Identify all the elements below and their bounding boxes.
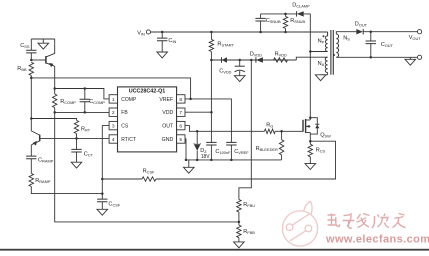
capacitor C_CSF: [101, 194, 103, 200]
terminal V_IN: [146, 30, 150, 34]
node MOSFET source: [309, 140, 312, 143]
wire secondary top to D_OUT: [336, 32, 356, 34]
resistor R_BB: [29, 62, 33, 75]
diode (VDD OR-ing): [222, 57, 227, 62]
resistor R_FBU: [237, 200, 241, 212]
svg-text:NA: NA: [318, 61, 325, 67]
capacitor C_IN: [161, 32, 163, 38]
transistor Q1 (PNP soft-start clamp): [45, 56, 47, 64]
wire ground bus of soft-start clamp (top-left): [31, 38, 54, 40]
wire pin 3 CS to filter node: [102, 126, 109, 194]
terminal output return: [418, 55, 422, 59]
inductor Np primary winding: [325, 32, 327, 52]
wire secondary return: [336, 56, 417, 58]
node base of Q1: [30, 59, 33, 62]
diode D_CLAMP: [297, 11, 304, 16]
wire VDD supply row: [211, 59, 296, 61]
svg-text:RRT: RRT: [81, 126, 91, 132]
pin 7 box: [177, 108, 185, 116]
wire R_RT bottom to RT/CT node: [76, 134, 78, 150]
svg-text:RBLEEDER: RBLEEDER: [256, 146, 278, 152]
node VREF spur to timing resistor: [30, 117, 33, 120]
svg-text:RT/CT: RT/CT: [121, 137, 136, 143]
node C_COMP bottom: [84, 111, 87, 114]
svg-text:2: 2: [112, 110, 115, 116]
node secondary polarity dot: [333, 54, 335, 56]
svg-text:RCS: RCS: [316, 148, 326, 154]
node C_COMP top: [84, 87, 87, 90]
svg-text:RFBU: RFBU: [243, 202, 255, 208]
svg-text:www.elecfans.com: www.elecfans.com: [325, 234, 429, 246]
ground (FB divider): [234, 242, 245, 248]
svg-text:7: 7: [179, 110, 182, 116]
wire R_CSF to current-sense loop: [156, 141, 336, 179]
pin 1 box: [109, 95, 117, 103]
capacitor C_SS: [30, 39, 32, 50]
resistor R_RT: [74, 120, 78, 133]
capacitor C_OUT: [370, 32, 372, 41]
svg-text:CSS: CSS: [20, 43, 30, 49]
svg-text:CVREF: CVREF: [234, 149, 249, 155]
svg-text:CCSF: CCSF: [108, 201, 120, 207]
svg-text:COMP: COMP: [121, 97, 137, 103]
pin 5 box: [177, 135, 185, 143]
capacitor C_CT: [71, 149, 81, 152]
svg-text:8: 8: [179, 97, 182, 103]
svg-text:NP: NP: [318, 39, 325, 45]
pin 3 box: [109, 121, 117, 129]
diode D_VDD: [256, 57, 263, 62]
pin 2 box: [109, 108, 117, 116]
pin 8 box: [177, 95, 185, 103]
svg-text:RG: RG: [266, 123, 273, 129]
ground (R_CS): [305, 164, 316, 170]
node CS / C_CSF: [101, 192, 104, 195]
svg-text:OUT: OUT: [162, 124, 174, 130]
node C_SNUB bottom: [259, 31, 262, 34]
svg-text:GND: GND: [162, 137, 174, 143]
wire R_FBU to junction: [238, 212, 240, 225]
wire pin 6 OUT to gate: [185, 126, 264, 132]
wire D_OUT to V_OUT: [363, 31, 417, 33]
svg-text:CVDD: CVDD: [219, 68, 231, 74]
wire R_G to MOSFET gate: [275, 130, 303, 132]
node C_OUT top: [370, 30, 373, 33]
wire bottom border line: [0, 249, 429, 251]
svg-text:5: 5: [179, 137, 182, 143]
svg-text:1: 1: [112, 97, 115, 103]
node pin 7 VDD: [210, 111, 213, 114]
op-amp U1 UCC28C42-Q1 body: [118, 87, 177, 152]
wire primary bottom: [310, 51, 327, 53]
svg-text:CSNUB: CSNUB: [266, 18, 281, 24]
svg-text:RCSF: RCSF: [143, 168, 155, 174]
wire ground rail: [186, 159, 282, 161]
node R_SNUB top: [284, 13, 287, 16]
svg-text:VDD: VDD: [162, 110, 173, 116]
node pin5 at ground rail: [185, 159, 188, 162]
svg-text:FB: FB: [121, 110, 128, 116]
inductor Na auxiliary winding: [325, 57, 327, 72]
node VREF rail joins pin 8 wire: [189, 98, 192, 101]
ground (IC ground rail): [188, 160, 190, 167]
wire R_BB bottom to Q2 collector column: [30, 76, 32, 131]
pin 4 box: [109, 135, 117, 143]
svg-text:CIN: CIN: [168, 38, 176, 44]
wire pin 7 stub: [185, 111, 211, 113]
resistor R_G: [264, 129, 275, 133]
node R_BLEEDER top: [280, 130, 283, 133]
wire aux bottom to ground: [327, 73, 329, 75]
wire pin 8 VREF to C_VREF: [185, 99, 231, 142]
resistor R_VDD: [274, 58, 288, 62]
resistor R_FBB: [237, 225, 241, 238]
svg-text:QSW: QSW: [320, 132, 331, 138]
wire Q2 base to RT/CT: [40, 137, 109, 139]
capacitor C_SNUB: [260, 14, 262, 19]
terminal V_OUT: [418, 30, 422, 34]
svg-text:C100nF: C100nF: [215, 149, 231, 155]
svg-text:VOUT: VOUT: [409, 35, 422, 41]
node CS / R_CSF: [101, 178, 104, 181]
node R_COMP at FB line: [53, 111, 56, 114]
zener diode D_Z 18V: [196, 131, 198, 144]
svg-text:RSNUB: RSNUB: [290, 18, 305, 24]
transistor Q2 (slope-compensation buffer): [39, 135, 41, 142]
transformer core: [330, 30, 332, 75]
svg-text:CS: CS: [121, 124, 129, 130]
wire aux node to R_FBU: [239, 60, 251, 200]
wire R_RAMP to CS filter node: [31, 187, 102, 194]
wire R_VDD to aux winding: [296, 57, 327, 60]
svg-text:CCOMP: CCOMP: [89, 99, 105, 105]
transistor Q_SW (N-MOSFET): [302, 120, 304, 132]
ground (soft-start clamp): [42, 39, 44, 43]
diode D_OUT: [356, 29, 363, 34]
svg-text:DVDD: DVDD: [250, 51, 262, 57]
node C_OUT bottom: [370, 56, 373, 59]
svg-text:VIN: VIN: [137, 30, 145, 36]
node C_VDD top: [238, 59, 241, 62]
svg-text:RVDD: RVDD: [275, 51, 287, 57]
svg-text:COUT: COUT: [381, 42, 394, 48]
svg-text:CRAMP: CRAMP: [38, 157, 54, 163]
svg-text:RFBB: RFBB: [243, 229, 255, 235]
resistor R_START: [210, 32, 212, 39]
pin 6 box: [177, 121, 185, 129]
svg-text:RRAMP: RRAMP: [35, 178, 51, 184]
wire pin 5 GND down: [185, 139, 186, 160]
node R_SNUB bottom: [284, 31, 287, 34]
capacitor C_VREF: [226, 142, 236, 145]
node C_VREF bottom: [230, 159, 233, 162]
wire R_START bottom to VDD node: [210, 52, 212, 61]
svg-text:DOUT: DOUT: [355, 22, 368, 28]
wire clamp to drain: [304, 14, 311, 118]
node MOSFET drain: [309, 116, 312, 119]
wire VDD vertical to pin 7 and bypass cap: [210, 60, 212, 142]
svg-text:3: 3: [112, 124, 115, 130]
resistor R_SNUB: [285, 14, 287, 17]
node primary polarity dot: [323, 35, 325, 37]
ground (C_CSF): [97, 209, 108, 215]
resistor R_BLEEDER: [281, 131, 283, 139]
svg-text:VREF: VREF: [159, 97, 173, 103]
svg-text:UCC28C42-Q1: UCC28C42-Q1: [129, 88, 166, 94]
wire COMP node to pin 1: [55, 89, 109, 99]
wire VIN rail: [151, 31, 328, 33]
node FB divider junction: [238, 221, 241, 224]
svg-text:RCOMP: RCOMP: [60, 99, 76, 105]
ground (aux winding): [315, 75, 326, 81]
node primary bottom / drain: [309, 50, 312, 53]
node aux rectifier branch / FB divider takeoff: [250, 59, 253, 62]
wire FB line to pin 2: [55, 111, 109, 113]
node COMP junction: [53, 87, 56, 90]
wire VREF node to R_RT: [31, 119, 76, 121]
svg-text:DCLAMP: DCLAMP: [292, 2, 310, 8]
wire VREF rail to IC pin 8: [31, 78, 190, 99]
svg-text:RBB: RBB: [17, 66, 27, 72]
inductor Ns secondary winding: [336, 34, 338, 57]
svg-text:NS: NS: [343, 36, 350, 42]
node zener top: [196, 130, 199, 133]
capacitor C_COMP: [84, 89, 86, 100]
wire R_FBB to ground: [238, 238, 240, 242]
wire CS node to R_CSF: [102, 178, 142, 180]
resistor R_RAMP: [29, 173, 33, 186]
node R_BB bottom / VREF rail: [30, 77, 33, 80]
capacitor C_RAMP: [26, 156, 36, 159]
ground (C_CT): [71, 162, 82, 168]
resistor R_CS: [309, 141, 311, 144]
svg-text:CCT: CCT: [84, 151, 94, 157]
node C_100nF bottom: [210, 159, 213, 162]
svg-text:18V: 18V: [201, 154, 211, 160]
wire Q1 emitter to COMP node: [54, 66, 56, 94]
node zener bottom: [196, 159, 199, 162]
capacitor C_VDD (electrolytic): [239, 60, 241, 66]
wire R_COMP bottom down to FB divider line: [55, 108, 239, 222]
node VDD supply: [210, 59, 213, 62]
ground (C_IN): [157, 52, 168, 58]
wire clamp top: [261, 13, 297, 15]
svg-text:RSTART: RSTART: [217, 41, 234, 47]
wire Q1 base: [31, 59, 45, 61]
svg-text:4: 4: [112, 137, 115, 143]
wire Q2 emitter to C_RAMP: [30, 145, 32, 156]
resistor R_CSF: [142, 177, 156, 181]
capacitor C_100nF (VDD bypass): [206, 142, 216, 145]
resistor R_COMP: [53, 94, 57, 108]
node RT/CT junction: [75, 137, 78, 140]
ground (output return): [409, 57, 411, 59]
svg-text:6: 6: [179, 124, 182, 130]
ground (C_VDD): [234, 76, 245, 82]
node C_IN top: [161, 31, 164, 34]
node R_START top: [210, 31, 213, 34]
